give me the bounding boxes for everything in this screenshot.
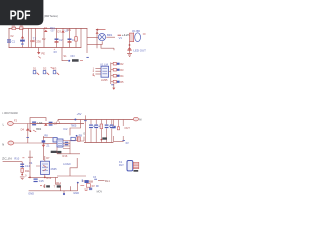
svg-text:D4: D4 [21,127,25,131]
input block loop [30,118,84,124]
wire mesh [57,136,84,154]
zener D10 [42,140,46,142]
ground arrow below top schematic [37,48,45,59]
capacitor C7 [94,120,98,143]
electrolytic capacitor C3 [68,28,76,47]
wire branch with tick [84,115,86,142]
net tick on drop [26,137,29,139]
svg-text:G: G [83,132,85,135]
varistor RV2 [86,184,90,188]
svg-text:LNK: LNK [37,121,42,125]
wire main rail to right [30,123,84,125]
fuse label [12,25,23,27]
svg-text:X2: X2 [10,34,14,38]
svg-text:R11: R11 [25,169,30,173]
capacitor C16 [85,180,89,183]
wire upper loop [30,118,46,124]
svg-text:LED OUT: LED OUT [133,49,146,53]
svg-text:007: 007 [51,29,56,32]
wire L rail [13,123,30,125]
svg-text:PDF: PDF [10,8,31,22]
bottom-left RC to ground [2,156,30,179]
op-amp U1 box [100,63,109,82]
wire down from bridge to lower cluster [97,30,114,51]
svg-text:R4: R4 [120,74,124,78]
fuse F1 [12,27,16,30]
resistor R2 [111,62,124,66]
svg-text:1. CIRCUIT DIAGRAM: 1. CIRCUIT DIAGRAM [2,111,18,115]
svg-text:D1: D1 [33,67,37,71]
tick mark [51,67,54,70]
component blue box [71,137,75,140]
wire left vertical [8,28,10,47]
right bus wire [109,63,111,85]
wire bottom [57,153,80,155]
input wires [95,68,101,74]
wire long top rail [58,119,134,121]
ground [127,54,132,57]
svg-text:R5: R5 [120,80,124,84]
wire bridge bottom return [87,41,102,44]
capacitor C4 [32,122,36,123]
arrow label wire top [96,29,106,31]
label [40,185,42,187]
optocoupler U4 [28,151,61,185]
capacitor C9 [110,120,114,143]
tick mark right [92,75,95,76]
wire bridge output right [106,36,115,38]
svg-text:N: N [2,142,4,146]
svg-text:RLY: RLY [119,163,124,167]
capacitor C14 [20,164,24,165]
junction dot [29,124,31,131]
svg-text:R14: R14 [56,181,61,185]
capacitor C10 [112,120,116,142]
svg-text:D2: D2 [43,67,47,71]
wire secondary vertical [43,28,45,47]
zener block center-left [42,134,58,160]
svg-text:GND: GND [73,191,79,195]
resistor R11 [21,168,24,172]
wire U bottom [113,141,123,143]
wire [3,162,23,176]
wire Q1 emitter down [129,42,131,53]
capacitor C15 [34,179,38,180]
svg-text:D3: D3 [57,29,61,33]
switch S1 branch [62,48,89,62]
winding marks [30,40,34,42]
capacitor C11 [113,120,130,145]
PDF file-type badge [0,0,43,25]
svg-text:4N35: 4N35 [50,167,57,171]
svg-text:BR2: BR2 [36,127,42,131]
diode symbol D5 [33,67,39,75]
svg-text:(MW Series): (MW Series) [44,14,58,18]
wire right vertical of top loop [80,28,82,47]
label TRIAC [51,151,57,153]
transistor Q1 [130,29,146,42]
regulator step wire [70,120,81,136]
wires around U4 [28,151,61,185]
ground arrow under bus [111,84,115,90]
capacitor C13 [65,142,69,143]
wire top rail [9,27,87,29]
svg-text:LOAD: LOAD [63,162,70,166]
svg-text:R10: R10 [14,156,19,160]
electrolytic capacitor C2 [55,28,63,47]
junction node on rail [74,119,76,121]
resistor R7 [117,120,119,130]
svg-text:C15: C15 [39,179,44,183]
IC U3 [57,139,63,147]
svg-text:D2: D2 [42,37,46,41]
varistor RV1 [20,27,23,30]
svg-text:ON: ON [70,54,74,58]
wire center vertical [42,136,44,160]
diode D1 with blue body on second vertical [20,28,25,47]
bridge rectifier BR1 [96,32,113,41]
diode symbol D6 [43,67,49,75]
svg-text:D1: D1 [44,26,48,30]
resistor R5 [111,80,124,84]
transformer T1 windings [28,28,35,47]
relay K1 bottom right [119,160,139,172]
svg-text:PE: PE [41,52,45,56]
diode D8 on left drop [21,124,30,144]
diode D2 at top of secondary [44,30,48,32]
svg-text:R3: R3 [120,68,124,72]
connector output ellipse [133,117,138,121]
ground [20,177,25,180]
diode symbol D7 [53,67,59,75]
svg-text:ZC_IN: ZC_IN [2,156,12,160]
svg-text:M: M [139,117,141,121]
svg-text:S1: S1 [63,54,67,58]
svg-text:R2: R2 [120,62,124,66]
svg-text:OUT: OUT [124,126,130,130]
svg-text:BR1: BR1 [107,33,113,37]
resistor R9 [78,137,81,141]
wire N rail [14,142,44,144]
wire [29,184,78,191]
svg-text:MOV: MOV [97,191,103,194]
svg-text:RL1: RL1 [105,179,110,183]
wire to bridge left vertical [87,28,98,53]
junction node [129,44,131,46]
capacitor C5 [49,122,53,123]
svg-text:R12: R12 [46,176,51,180]
svg-text:R9: R9 [79,134,83,138]
node VCC tick [118,34,121,36]
svg-text:C2: C2 [59,38,63,42]
svg-text:R8: R8 [44,134,48,138]
svg-text:0V: 0V [126,141,129,145]
svg-text:LM35: LM35 [101,78,108,82]
resistor R6 [100,120,103,143]
resistor R3 [111,68,124,72]
svg-text:IC2: IC2 [63,127,68,131]
svg-text:+5V: +5V [77,112,82,116]
capacitor C12 [53,138,57,142]
center dense cluster (controller) [57,134,84,159]
tiny cap labels [93,125,115,127]
resistor R4 [111,74,124,78]
svg-text:230: 230 [36,39,41,43]
svg-text:D7: D7 [46,156,50,160]
junction [21,174,23,176]
capacitor C1 on left branch [7,34,16,43]
LED D4 [127,47,131,50]
svg-text:0V: 0V [54,50,57,54]
wire bottom rail [9,47,81,49]
svg-text:V1: V1 [119,36,123,40]
snubber RC bottom right of center [82,176,110,194]
svg-text:7805: 7805 [71,124,77,128]
svg-text:R1: R1 [67,28,71,32]
svg-text:U4: U4 [29,161,33,165]
lower middle cluster [28,179,77,196]
resistor R1 [67,28,77,48]
svg-text:0V: 0V [92,184,95,188]
svg-text:C1: C1 [12,40,16,44]
svg-text:R16: R16 [63,154,68,158]
capacitor C17 [89,188,92,191]
wire bottom rail 0V [84,142,113,144]
wire to snubber [82,180,105,182]
svg-text:GND: GND [28,192,34,196]
capacitor C6 [89,120,93,143]
capacitor C8 [102,120,108,143]
bottom middle bits [56,181,84,195]
diode D9 [44,123,47,126]
svg-text:Q1 BD: Q1 BD [132,29,140,33]
diode D3 on third branch top [57,28,68,47]
staircase wire right of center [57,158,86,176]
svg-text:C9: C9 [89,180,93,184]
